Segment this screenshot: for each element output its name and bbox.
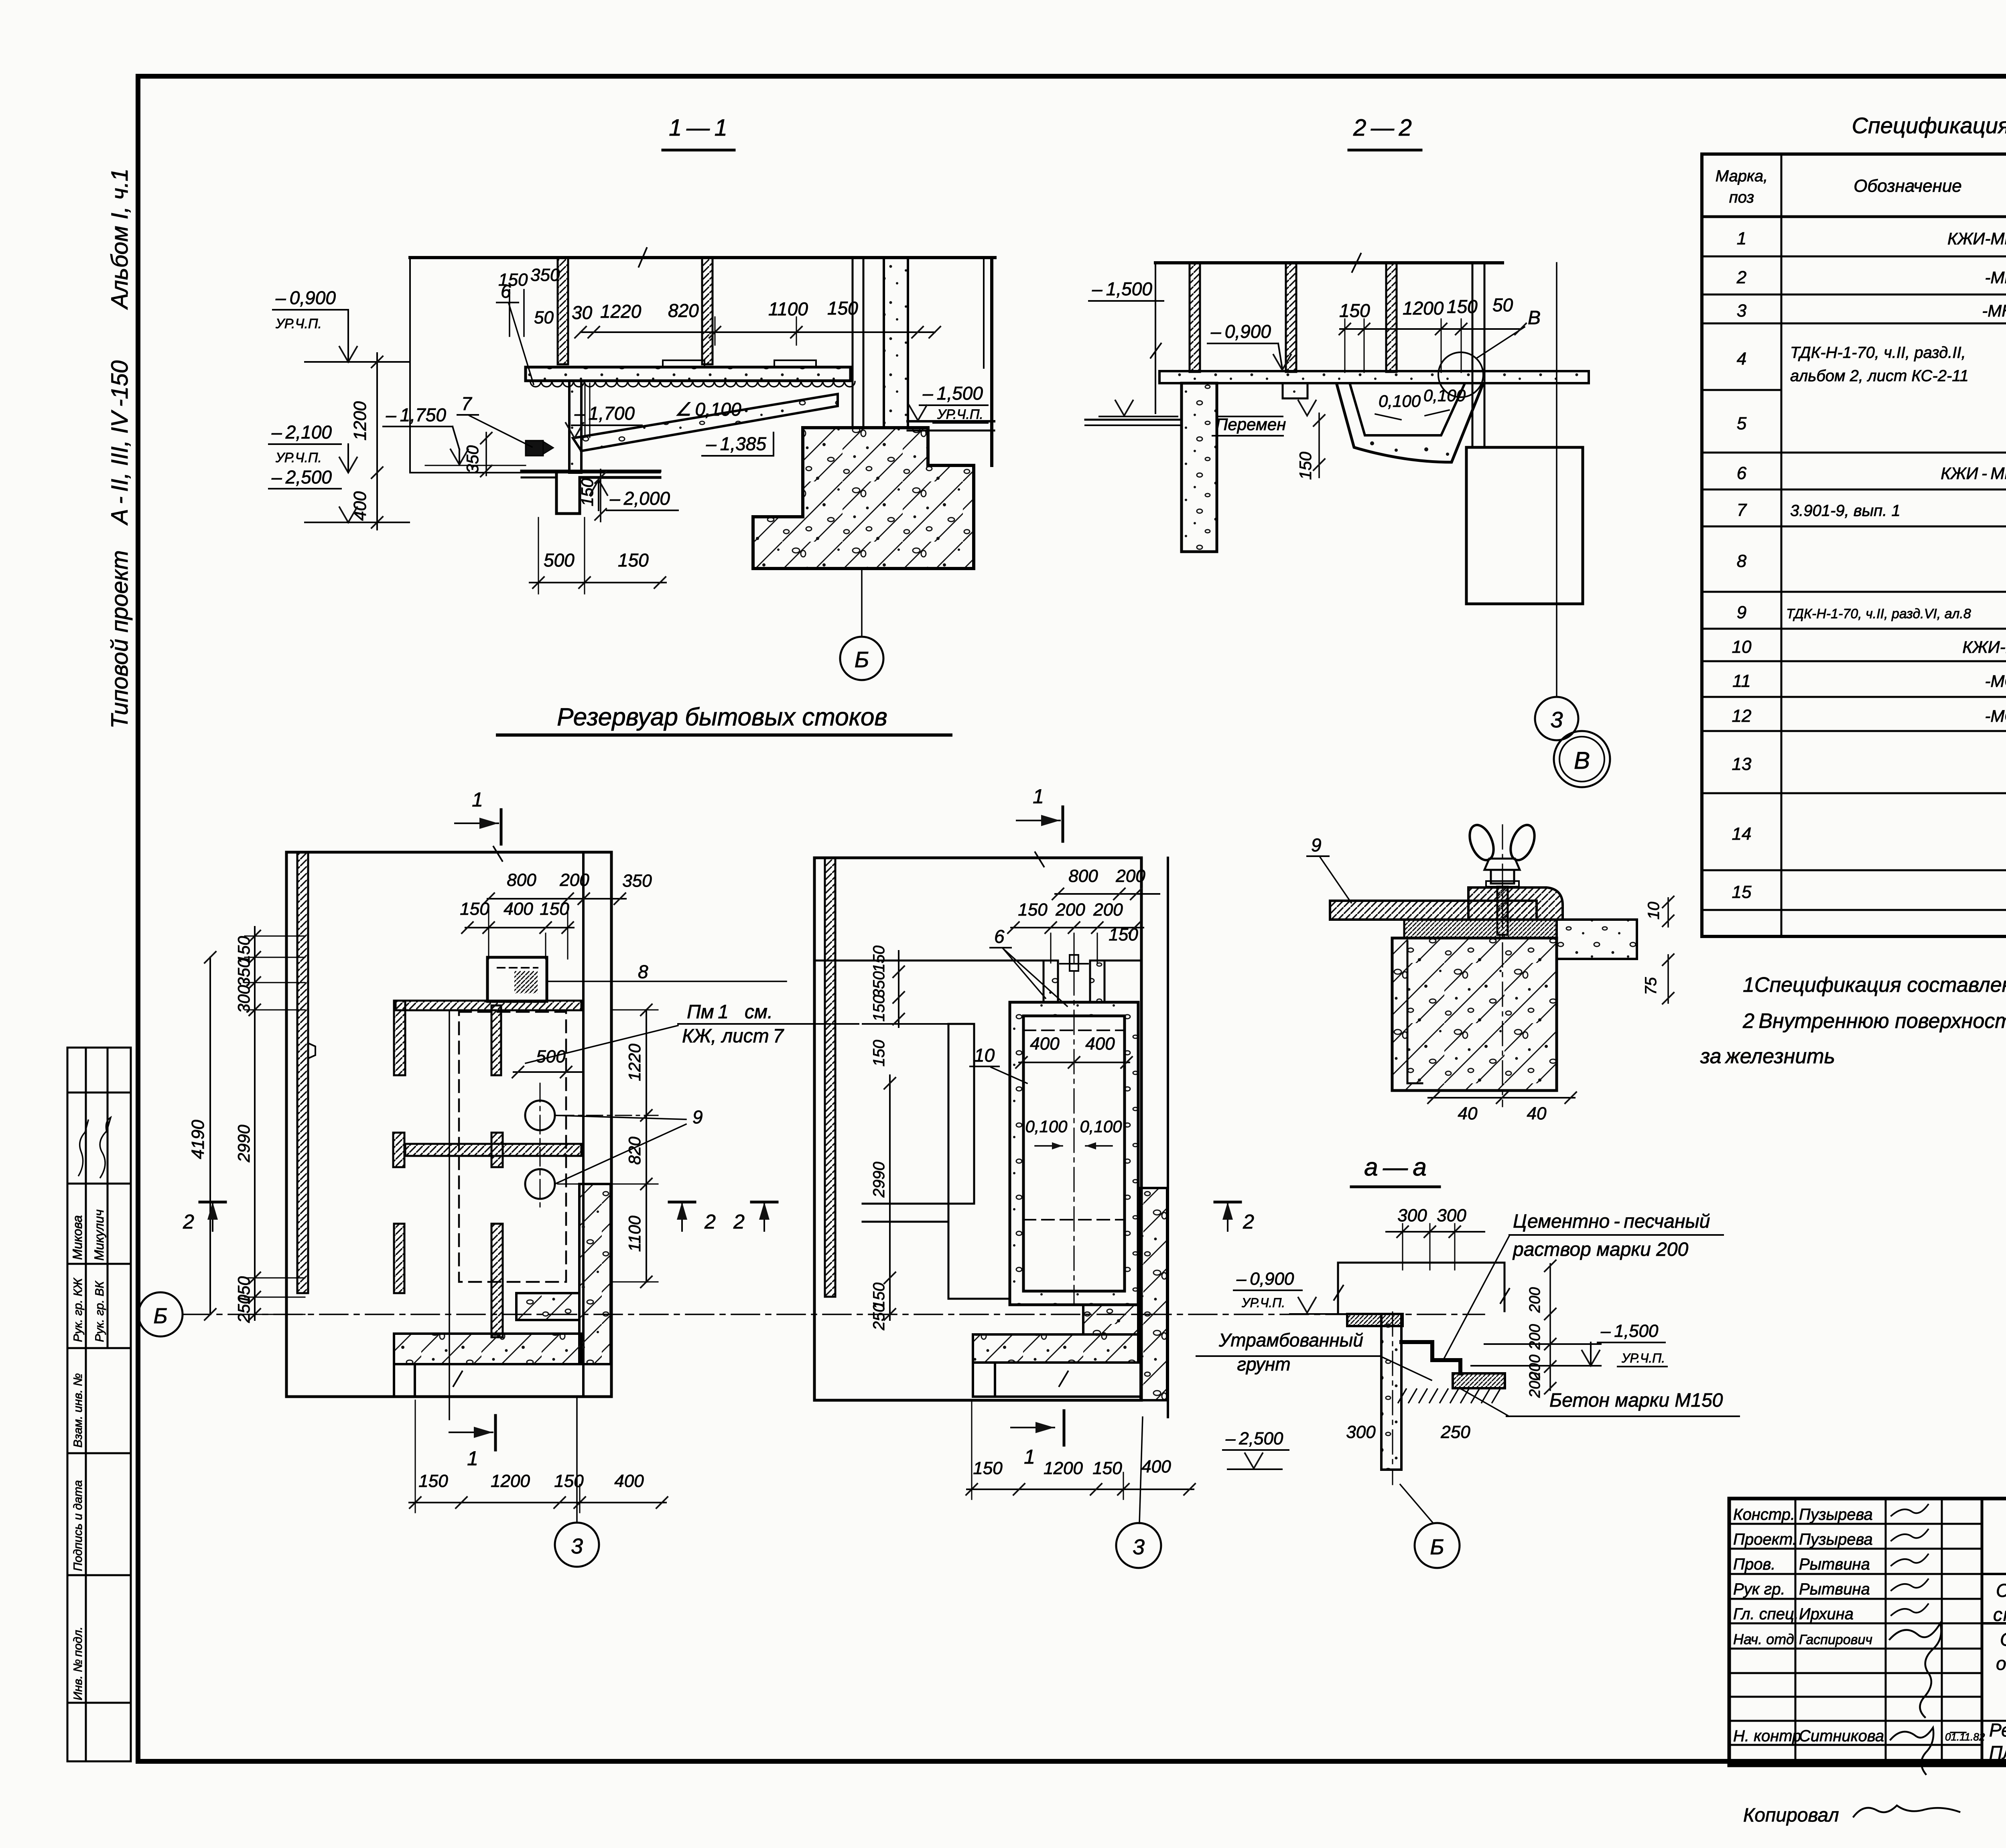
- axis line to node B: [861, 569, 863, 637]
- svg-text:30: 30: [572, 302, 593, 323]
- svg-text:8: 8: [1737, 551, 1747, 571]
- svg-text:Марка,: Марка,: [1716, 167, 1768, 185]
- svg-text:2990: 2990: [870, 1162, 888, 1198]
- plan2 right concrete strip: [1141, 1188, 1167, 1400]
- svg-text:40: 40: [1458, 1104, 1478, 1123]
- svg-text:раствор марки 200: раствор марки 200: [1512, 1239, 1688, 1260]
- svg-text:300: 300: [1346, 1422, 1376, 1442]
- svg-text:-МН4: -МН4: [1985, 268, 2006, 287]
- axis B dash-dot: [183, 1314, 1484, 1315]
- svg-text:500: 500: [544, 550, 575, 571]
- main title block: [1729, 1499, 2006, 1765]
- svg-text:800: 800: [1068, 866, 1098, 886]
- svg-text:12: 12: [1732, 706, 1752, 726]
- svg-text:Рук. гр. ВК: Рук. гр. ВК: [93, 1280, 106, 1342]
- svg-text:350: 350: [622, 871, 652, 891]
- svg-text:– 1,750: – 1,750: [386, 404, 446, 425]
- svg-text:Проект.: Проект.: [1733, 1531, 1797, 1548]
- svg-text:200: 200: [1527, 1324, 1543, 1350]
- svg-text:Микова: Микова: [70, 1215, 85, 1260]
- svg-text:150: 150: [1092, 1458, 1122, 1478]
- left pier: [1182, 383, 1217, 552]
- svg-text:КЖИ - МН5: КЖИ - МН5: [1941, 464, 2006, 483]
- svg-text:– 1,700: – 1,700: [574, 403, 635, 424]
- svg-text:Подпись и дата: Подпись и дата: [71, 1480, 85, 1571]
- svg-text:820: 820: [625, 1136, 644, 1165]
- svg-text:Бетон марки М150: Бетон марки М150: [1549, 1390, 1723, 1411]
- svg-text:150: 150: [1018, 900, 1048, 920]
- left extension with break: [1155, 263, 1156, 413]
- slab corrugation: [530, 382, 855, 387]
- svg-text:300: 300: [1397, 1206, 1427, 1225]
- svg-text:400: 400: [1030, 1034, 1060, 1054]
- svg-text:Н. контр: Н. контр: [1733, 1727, 1801, 1745]
- svg-text:1100: 1100: [768, 299, 808, 319]
- svg-text:2: 2: [1736, 268, 1746, 287]
- svg-text:4: 4: [1737, 349, 1746, 369]
- svg-text:ТДК-Н-1-70, ч.II, разд.VI, ал.: ТДК-Н-1-70, ч.II, разд.VI, ал.8: [1786, 606, 1971, 621]
- svg-text:Б: Б: [855, 647, 869, 672]
- svg-text:2: 2: [1243, 1210, 1254, 1233]
- plan2 bottom section mark 1: [1011, 1427, 1054, 1428]
- svg-text:УР.Ч.П.: УР.Ч.П.: [275, 450, 322, 465]
- svg-text:Отдельно стоящий: Отдельно стоящий: [2000, 1629, 2006, 1650]
- plan1 bottom slab: [394, 1334, 581, 1364]
- svg-text:– 1,500: – 1,500: [1600, 1321, 1659, 1341]
- svg-text:150: 150: [827, 298, 858, 319]
- svg-text:Пм 1 см.: Пм 1 см.: [687, 1001, 773, 1023]
- plan1 manholes item 9: [525, 1101, 555, 1130]
- plan1 right concrete strip: [579, 1184, 611, 1364]
- svg-text:поз: поз: [1729, 189, 1754, 206]
- svg-text:а — а: а — а: [1364, 1153, 1427, 1181]
- svg-text:2990: 2990: [234, 1125, 253, 1163]
- svg-text:за железнить: за железнить: [1700, 1045, 1835, 1068]
- svg-text:Рытвина: Рытвина: [1799, 1580, 1870, 1598]
- svg-text:Цементно - песчаный: Цементно - песчаный: [1513, 1211, 1710, 1232]
- svg-text:350: 350: [870, 971, 888, 998]
- right wall boundary: [990, 258, 993, 465]
- excavation boundary: [409, 258, 411, 473]
- svg-text:– 1,385: – 1,385: [706, 433, 766, 454]
- bottom slab: [1453, 1373, 1505, 1388]
- svg-text:50: 50: [534, 308, 554, 327]
- svg-text:150: 150: [1447, 296, 1478, 317]
- svg-text:Пузырева: Пузырева: [1799, 1531, 1873, 1548]
- svg-text:1200: 1200: [1403, 298, 1444, 319]
- svg-text:1: 1: [467, 1447, 478, 1470]
- plan2 top slab edge: [814, 960, 1044, 962]
- plan1 bottom section mark 1: [449, 1432, 493, 1433]
- svg-text:150: 150: [460, 899, 489, 919]
- svg-text:150: 150: [973, 1458, 1003, 1478]
- svg-text:Гаспирович: Гаспирович: [1799, 1632, 1872, 1647]
- svg-text:УР.Ч.П.: УР.Ч.П.: [1241, 1296, 1285, 1310]
- svg-text:1 — 1: 1 — 1: [669, 115, 727, 141]
- center axis: [1502, 825, 1503, 1107]
- lid plate: [1468, 887, 1563, 920]
- signatures rotated: [79, 1120, 88, 1176]
- svg-text:150: 150: [578, 478, 597, 506]
- tank bottom slab: [522, 470, 660, 473]
- svg-text:7: 7: [461, 393, 472, 414]
- svg-text:УР.Ч.П.: УР.Ч.П.: [275, 316, 322, 331]
- slab at -1.500: [908, 420, 994, 422]
- upper box: [1338, 1262, 1504, 1264]
- plan1 left dim chain: [254, 927, 256, 1320]
- svg-text:0,100: 0,100: [1423, 386, 1466, 405]
- section marks 2: [200, 1201, 225, 1204]
- svg-text:2: 2: [704, 1210, 716, 1233]
- top ground line: [410, 256, 995, 259]
- svg-text:13: 13: [1732, 754, 1752, 774]
- svg-text:150: 150: [870, 1040, 888, 1067]
- spec table grid: [1702, 154, 2006, 936]
- wall hatch A: [558, 258, 568, 364]
- svg-text:УР.Ч.П.: УР.Ч.П.: [1621, 1351, 1665, 1365]
- floor slab: [1159, 371, 1589, 383]
- axis to node 3: [1556, 263, 1557, 697]
- plan2 neck walls: [1044, 961, 1058, 1002]
- svg-text:6: 6: [994, 926, 1005, 947]
- top hatched slab: [1330, 901, 1537, 920]
- node B circle: [840, 637, 883, 680]
- svg-text:ТДК-Н-1-70, ч.II, разд.II,: ТДК-Н-1-70, ч.II, разд.II,: [1790, 344, 1966, 361]
- plan1 lower wall stubs: [394, 1224, 404, 1293]
- svg-text:Констр.: Констр.: [1733, 1506, 1795, 1523]
- svg-text:Планы, сечения.: Планы, сечения.: [1989, 1742, 2006, 1763]
- svg-text:150: 150: [540, 899, 569, 919]
- pipe sleeve item 7: [585, 383, 586, 437]
- svg-text:150: 150: [618, 550, 649, 571]
- svg-text:– 0,900: – 0,900: [275, 287, 336, 308]
- svg-text:Резервуар бытовых стоков.: Резервуар бытовых стоков.: [1989, 1720, 2006, 1740]
- plan2 tank inner dashed: [1023, 1030, 1125, 1031]
- plan1 top interior wall: [396, 1001, 581, 1010]
- svg-text:400: 400: [1141, 1457, 1171, 1476]
- plan1 middle interior wall: [405, 1144, 581, 1156]
- plan1 right dim chain: [646, 1010, 647, 1282]
- svg-text:800: 800: [507, 870, 536, 890]
- left margin stamp table upper: [67, 1048, 131, 1348]
- sloped tank floor: [573, 394, 838, 451]
- svg-text:0,100: 0,100: [1080, 1117, 1122, 1136]
- svg-text:150: 150: [1296, 451, 1315, 480]
- svg-text:Инв. № подл.: Инв. № подл.: [71, 1627, 85, 1700]
- node B circle left: [138, 1292, 183, 1336]
- svg-text:Перемен: Перемен: [1216, 415, 1286, 434]
- svg-text:Б: Б: [1430, 1535, 1444, 1559]
- svg-text:1: 1: [1737, 229, 1746, 248]
- svg-text:350: 350: [234, 958, 253, 987]
- svg-text:– 2,500: – 2,500: [271, 467, 332, 487]
- svg-text:9: 9: [1311, 835, 1322, 855]
- left margin stamp table lower: [67, 1348, 131, 1761]
- svg-text:11: 11: [1732, 671, 1751, 691]
- svg-text:1Спецификация составлена ко в: 1Спецификация составлена ко всему компле…: [1743, 973, 2006, 997]
- svg-text:9: 9: [692, 1107, 703, 1127]
- svg-text:200: 200: [559, 870, 589, 890]
- tamped soil hatch: [1398, 1389, 1500, 1403]
- trough: [1337, 384, 1483, 462]
- svg-text:400: 400: [1085, 1034, 1115, 1054]
- svg-text:1: 1: [472, 788, 483, 811]
- svg-text:2: 2: [183, 1210, 194, 1233]
- svg-text:3: 3: [1550, 707, 1563, 732]
- svg-text:5: 5: [1737, 414, 1747, 433]
- node B circle: [1415, 1523, 1460, 1568]
- svg-text:350: 350: [530, 265, 560, 285]
- svg-text:1220: 1220: [625, 1044, 644, 1081]
- svg-text:2: 2: [733, 1210, 745, 1233]
- svg-text:УР.Ч.П.: УР.Ч.П.: [937, 407, 983, 422]
- svg-text:6: 6: [1737, 463, 1747, 483]
- right slab: [1557, 920, 1637, 959]
- svg-text:Рытвина: Рытвина: [1799, 1556, 1870, 1573]
- right wall pair: [1472, 263, 1474, 447]
- svg-text:0,100: 0,100: [1025, 1117, 1068, 1136]
- svg-text:1200: 1200: [491, 1471, 530, 1491]
- svg-text:400: 400: [350, 491, 370, 521]
- plan1 hidden tank dashed: [459, 1012, 566, 1282]
- svg-text:50: 50: [1492, 294, 1513, 315]
- svg-text:Обозначение: Обозначение: [1854, 176, 1962, 196]
- concrete mass: [1392, 938, 1557, 1091]
- wall strip: [1381, 1314, 1401, 1470]
- svg-text:-МС1: -МС1: [1985, 707, 2006, 725]
- svg-text:1: 1: [1024, 1446, 1035, 1468]
- plan2 left hatched wall: [825, 858, 835, 1297]
- svg-text:– 2,500: – 2,500: [1225, 1429, 1283, 1448]
- svg-text:отапливаемый склад: отапливаемый склад: [1996, 1653, 2006, 1674]
- svg-text:0,100: 0,100: [1379, 392, 1421, 410]
- svg-text:7: 7: [1737, 500, 1747, 520]
- detail title circle V: [1554, 731, 1610, 787]
- svg-text:∠ 0,100: ∠ 0,100: [675, 399, 741, 420]
- svg-text:КЖИ-Р1: КЖИ-Р1: [1962, 638, 2006, 656]
- svg-text:150: 150: [870, 995, 888, 1022]
- svg-text:200: 200: [1115, 866, 1145, 886]
- svg-text:8: 8: [638, 961, 648, 982]
- svg-text:-МС1: -МС1: [1985, 672, 2006, 690]
- svg-text:– 2,100: – 2,100: [271, 422, 332, 443]
- svg-text:6: 6: [501, 281, 511, 302]
- svg-text:Нач. отд.: Нач. отд.: [1733, 1631, 1798, 1647]
- svg-text:Типовой проект А - II, III: Типовой проект А - II, III, IV -150 Альб…: [107, 169, 133, 729]
- svg-text:Утрамбованный: Утрамбованный: [1218, 1330, 1363, 1350]
- lintel block: [1283, 383, 1308, 398]
- svg-text:-МНП: -МНП: [1982, 301, 2006, 320]
- svg-text:200: 200: [1527, 1372, 1543, 1398]
- hatch opening top: [487, 957, 547, 1001]
- svg-text:3: 3: [571, 1534, 583, 1558]
- svg-text:Рук. гр. КЖ: Рук. гр. КЖ: [71, 1277, 85, 1342]
- concrete pier column: [884, 258, 908, 428]
- svg-text:15: 15: [1732, 882, 1752, 902]
- svg-text:2 Внутреннюю поверхность ст: 2 Внутреннюю поверхность стен и днища ре…: [1742, 1009, 2006, 1033]
- svg-text:300: 300: [1437, 1206, 1466, 1225]
- svg-text:4190: 4190: [188, 1120, 208, 1159]
- svg-text:3: 3: [1133, 1535, 1145, 1559]
- wing nut: [1465, 822, 1498, 864]
- svg-text:250: 250: [234, 1294, 253, 1323]
- svg-text:Спецификация металлических и: Спецификация металлических изделий: [1852, 113, 2006, 138]
- svg-text:1200: 1200: [1044, 1458, 1083, 1478]
- svg-text:200: 200: [1093, 900, 1123, 920]
- foundation block: [753, 428, 974, 569]
- tank left wall: [569, 381, 581, 473]
- svg-text:– 2,000: – 2,000: [609, 488, 670, 509]
- floor slab: [1347, 1314, 1403, 1326]
- bottom step block: [556, 473, 660, 514]
- svg-text:150: 150: [1339, 300, 1370, 321]
- svg-text:200: 200: [1055, 900, 1085, 920]
- svg-text:300: 300: [234, 985, 253, 1013]
- svg-text:1100: 1100: [625, 1215, 644, 1252]
- svg-text:150: 150: [870, 946, 888, 973]
- plan2 bottom slab: [973, 1334, 1138, 1363]
- svg-text:10: 10: [974, 1045, 995, 1066]
- dim 40 40: [1428, 1097, 1575, 1099]
- svg-text:Гл. спец.: Гл. спец.: [1733, 1605, 1799, 1623]
- wall hatch cols: [1190, 263, 1200, 372]
- svg-text:350: 350: [463, 445, 482, 473]
- plan2 node 3: [1139, 1417, 1143, 1523]
- svg-text:250: 250: [870, 1304, 888, 1331]
- svg-text:Пузырева: Пузырева: [1799, 1506, 1873, 1523]
- plan1 left hatched wall: [297, 852, 308, 1293]
- plan1 node 3: [576, 1397, 578, 1523]
- plan1 outer walls: [286, 852, 611, 1397]
- svg-text:Микулич: Микулич: [92, 1209, 106, 1261]
- svg-text:75: 75: [1642, 977, 1660, 995]
- svg-text:1: 1: [1033, 785, 1044, 808]
- svg-text:400: 400: [614, 1471, 644, 1491]
- svg-text:КЖИ-МН3: КЖИ-МН3: [1947, 229, 2006, 248]
- plan2 outer walls: [814, 858, 1141, 1400]
- tank box: [1466, 447, 1583, 604]
- svg-text:3: 3: [1737, 301, 1747, 321]
- center wall edges: [852, 258, 854, 428]
- svg-text:1200: 1200: [350, 401, 370, 441]
- svg-text:2 — 2: 2 — 2: [1353, 115, 1412, 141]
- floor line left: [1085, 419, 1182, 421]
- detail circle B: [1438, 352, 1483, 397]
- svg-text:строительно - климатической: строительно - климатической зоны: [1993, 1604, 2006, 1625]
- svg-text:Резервуар бытовых стоков: Резервуар бытовых стоков: [557, 703, 887, 731]
- axis to node B: [1392, 1312, 1393, 1484]
- wall hatch B: [702, 258, 713, 364]
- gasket: [1404, 920, 1557, 938]
- svg-text:400: 400: [504, 899, 533, 919]
- svg-text:КЖ, лист 7: КЖ, лист 7: [682, 1026, 784, 1047]
- top line: [1155, 261, 1502, 264]
- svg-text:Рук гр.: Рук гр.: [1733, 1580, 1785, 1598]
- svg-text:– 1,500: – 1,500: [1092, 278, 1152, 299]
- plan2 left dim chain: [898, 951, 899, 1027]
- svg-text:Ситникова: Ситникова: [1799, 1727, 1884, 1745]
- svg-text:250: 250: [1440, 1422, 1470, 1442]
- steps: [1401, 1342, 1460, 1373]
- svg-text:Ирхина: Ирхина: [1799, 1605, 1854, 1623]
- svg-text:В: В: [1574, 747, 1590, 774]
- svg-text:Б: Б: [153, 1304, 167, 1328]
- svg-text:10: 10: [1645, 902, 1663, 920]
- svg-text:Пров.: Пров.: [1733, 1556, 1775, 1573]
- svg-text:Копировал: Копировал: [1743, 1805, 1839, 1826]
- svg-text:– 0,900: – 0,900: [1210, 321, 1271, 342]
- plan2 tank ring: [1010, 1002, 1138, 1305]
- node 3 circle: [1535, 697, 1578, 740]
- svg-text:200: 200: [1527, 1287, 1543, 1313]
- svg-text:820: 820: [668, 300, 699, 321]
- svg-text:– 0,900: – 0,900: [1236, 1269, 1294, 1289]
- svg-text:3.901-9, вып. 1: 3.901-9, вып. 1: [1790, 502, 1900, 520]
- svg-text:Взам. инв. №: Взам. инв. №: [71, 1373, 85, 1448]
- svg-text:1220: 1220: [600, 301, 642, 322]
- floor slab: [526, 367, 851, 381]
- embedded plates on slab: [663, 360, 705, 367]
- svg-text:14: 14: [1732, 824, 1752, 844]
- plan2 center axis: [1074, 971, 1075, 1304]
- svg-text:В: В: [1528, 307, 1541, 329]
- svg-text:Сооружения для Северной: Сооружения для Северной: [1996, 1580, 2006, 1601]
- svg-text:9: 9: [1737, 603, 1746, 622]
- svg-text:– 1,500: – 1,500: [922, 383, 983, 404]
- svg-text:150: 150: [418, 1471, 448, 1491]
- svg-text:10: 10: [1732, 637, 1752, 657]
- svg-text:40: 40: [1527, 1104, 1547, 1123]
- svg-text:альбом 2, лист КС-2-11: альбом 2, лист КС-2-11: [1790, 367, 1969, 385]
- plan2 inner room lines: [948, 1024, 950, 1299]
